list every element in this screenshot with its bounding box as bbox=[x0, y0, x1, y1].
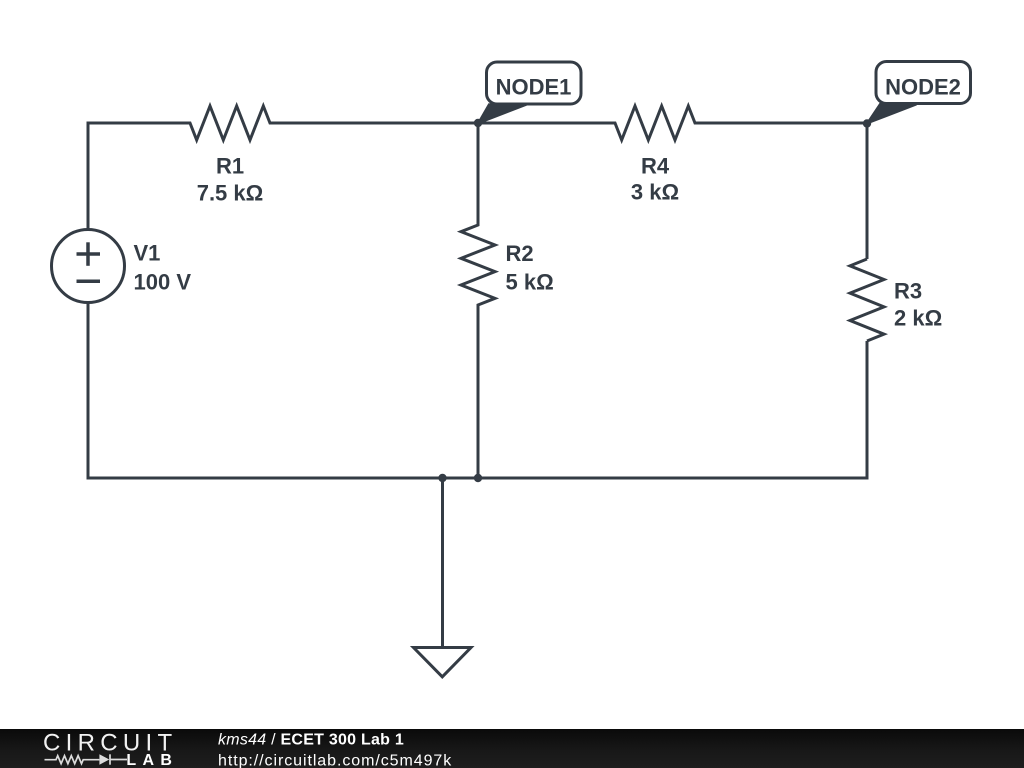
svg-text:R2: R2 bbox=[506, 241, 534, 266]
svg-text:NODE2: NODE2 bbox=[885, 74, 961, 99]
svg-text:V1: V1 bbox=[134, 241, 161, 266]
svg-text:R1: R1 bbox=[216, 154, 244, 179]
svg-text:3 kΩ: 3 kΩ bbox=[631, 180, 679, 205]
svg-text:5 kΩ: 5 kΩ bbox=[506, 270, 554, 295]
svg-text:http://circuitlab.com/c5m497k: http://circuitlab.com/c5m497k bbox=[218, 752, 452, 768]
svg-text:7.5 kΩ: 7.5 kΩ bbox=[197, 181, 264, 206]
svg-text:kms44 / ECET 300 Lab 1: kms44 / ECET 300 Lab 1 bbox=[218, 731, 404, 748]
svg-text:100 V: 100 V bbox=[134, 270, 192, 295]
svg-text:NODE1: NODE1 bbox=[496, 74, 572, 99]
svg-text:2 kΩ: 2 kΩ bbox=[894, 306, 942, 331]
svg-text:R4: R4 bbox=[641, 154, 670, 179]
svg-text:R3: R3 bbox=[894, 279, 922, 304]
svg-text:LAB: LAB bbox=[126, 752, 178, 768]
